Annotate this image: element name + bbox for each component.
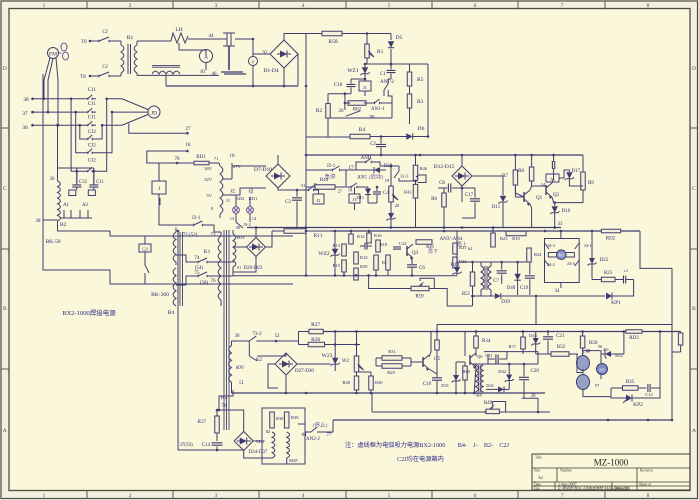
svg-text:B4: B4 bbox=[168, 310, 175, 316]
wire 60V to D20 bbox=[233, 246, 247, 248]
resistor R38 bbox=[270, 412, 275, 428]
wire bridge right to vline bbox=[297, 54, 299, 86]
svg-text:7: 7 bbox=[561, 493, 564, 499]
svg-text:R43: R43 bbox=[404, 190, 412, 195]
svg-text:4: 4 bbox=[302, 493, 305, 499]
phase bus B bbox=[33, 111, 85, 113]
resistor R24 bbox=[527, 248, 532, 262]
svg-text:C19: C19 bbox=[520, 286, 529, 291]
svg-text:R29: R29 bbox=[360, 264, 368, 269]
svg-text:36V: 36V bbox=[204, 166, 213, 171]
svg-text:D6: D6 bbox=[418, 126, 425, 132]
wire bridge left bbox=[253, 53, 270, 55]
wire Q6 collector bbox=[475, 348, 477, 353]
relay J3 box bbox=[349, 194, 360, 203]
svg-text:R60: R60 bbox=[463, 369, 471, 374]
svg-text:Size: Size bbox=[534, 469, 541, 473]
resistor R10 bbox=[506, 231, 526, 236]
svg-text:36: 36 bbox=[22, 125, 28, 131]
wire V top bbox=[252, 39, 254, 57]
svg-text:T6: T6 bbox=[81, 40, 87, 45]
svg-text:Q1: Q1 bbox=[536, 196, 543, 201]
svg-text:C2J: C2J bbox=[142, 247, 149, 252]
svg-text:27: 27 bbox=[186, 127, 192, 132]
motor M2 bbox=[597, 364, 608, 375]
wire D20 right bbox=[266, 231, 273, 247]
left bracket R27 R26 bbox=[298, 332, 300, 345]
wires CJ2 outputs down to B2 block bbox=[76, 171, 78, 183]
CJ2 right riser 2 bbox=[96, 112, 112, 153]
resistor R17 bbox=[374, 255, 379, 270]
second board bus y275 bbox=[233, 275, 457, 277]
svg-text:8: 8 bbox=[647, 3, 650, 9]
svg-text:C20: C20 bbox=[531, 369, 540, 374]
svg-text:18: 18 bbox=[186, 143, 192, 148]
wire KP1 loop bbox=[620, 280, 634, 297]
winding 60V upper bbox=[233, 234, 236, 267]
svg-text:R11: R11 bbox=[314, 233, 323, 239]
zener under W1 bbox=[388, 213, 394, 219]
svg-text:A: A bbox=[3, 428, 7, 434]
svg-text:76: 76 bbox=[222, 404, 228, 409]
resistor R52 bbox=[551, 352, 569, 357]
svg-text:RD1: RD1 bbox=[196, 155, 206, 160]
svg-text:D31: D31 bbox=[441, 383, 449, 388]
svg-text:R29: R29 bbox=[387, 370, 395, 375]
svg-text:51: 51 bbox=[239, 381, 245, 386]
diode DZ4 bbox=[454, 267, 460, 273]
block top rail bbox=[484, 351, 538, 353]
svg-text:C8: C8 bbox=[439, 181, 445, 186]
svg-text:1: 1 bbox=[43, 493, 46, 499]
svg-text:R25: R25 bbox=[604, 271, 613, 276]
thyristor KP2 bbox=[626, 395, 632, 402]
wire ANH row right bbox=[391, 165, 399, 167]
svg-text:27: 27 bbox=[338, 189, 343, 194]
svg-text:Drawn By: Drawn By bbox=[614, 487, 629, 491]
relay J2 box bbox=[313, 194, 324, 204]
svg-text:D1-D4: D1-D4 bbox=[263, 68, 279, 74]
wire D17 join bbox=[569, 184, 583, 186]
resistor R27 bbox=[309, 329, 323, 334]
svg-text:C1: C1 bbox=[380, 72, 386, 77]
svg-text:R46: R46 bbox=[420, 166, 428, 171]
resistor R35 bbox=[623, 386, 639, 391]
contact AN2-2 bbox=[311, 427, 317, 432]
svg-text:Revision: Revision bbox=[640, 469, 653, 473]
main transformer core bbox=[224, 230, 229, 430]
right rail x672 bbox=[671, 268, 673, 420]
wire LH to 44 bbox=[188, 38, 227, 40]
svg-text:LH: LH bbox=[175, 27, 182, 33]
svg-text:R8: R8 bbox=[518, 169, 524, 174]
wires M2 block bbox=[582, 348, 584, 354]
svg-text:DZ4: DZ4 bbox=[450, 263, 460, 268]
resistor R34 bbox=[474, 336, 479, 348]
cap C12 bbox=[648, 384, 650, 392]
wire FM to phase A bbox=[44, 58, 50, 99]
resistor R48 bbox=[354, 376, 359, 390]
contact to J2 bbox=[297, 189, 304, 191]
resistor R13 bbox=[342, 244, 347, 256]
resistor R40 bbox=[369, 376, 374, 390]
block mid rail bbox=[473, 363, 538, 365]
current transformer LH bbox=[171, 33, 188, 43]
svg-text:6: 6 bbox=[474, 3, 477, 9]
svg-text:J4-3: J4-3 bbox=[547, 243, 555, 248]
resistor R26 bbox=[308, 342, 324, 347]
wire bottom left bus bbox=[178, 449, 244, 451]
svg-text:R26: R26 bbox=[311, 337, 320, 343]
cap c1 small bbox=[624, 276, 626, 284]
CJ2 left riser 1 bbox=[80, 125, 84, 139]
resistor R5 bbox=[407, 72, 412, 86]
cap C19 bbox=[525, 276, 535, 278]
gas valve coil upper bbox=[577, 356, 590, 371]
resistor R21 bbox=[453, 243, 458, 254]
svg-text:D11: D11 bbox=[356, 195, 364, 200]
svg-text:W2: W2 bbox=[342, 359, 350, 364]
svg-text:J2-1: J2-1 bbox=[327, 164, 336, 169]
varistor box right bbox=[88, 190, 95, 196]
svg-text:R44: R44 bbox=[320, 178, 329, 183]
cap C4 bbox=[373, 192, 381, 194]
diode D42 bbox=[506, 375, 512, 381]
svg-text:71: 71 bbox=[214, 156, 219, 161]
cap C22 bbox=[393, 247, 401, 249]
svg-text:7: 7 bbox=[561, 3, 564, 9]
resistor R37 bbox=[215, 416, 220, 433]
svg-text:5: 5 bbox=[388, 3, 391, 9]
svg-text:3: 3 bbox=[215, 3, 218, 9]
fuse CF box bbox=[139, 244, 151, 252]
diode D31c bbox=[453, 375, 459, 381]
cap C14 bbox=[212, 443, 223, 445]
fuse RD3 bbox=[626, 330, 642, 334]
svg-text:D41: D41 bbox=[486, 383, 494, 388]
wire 76 line bbox=[232, 272, 234, 276]
relay J box bbox=[152, 181, 166, 194]
wire osc bottom bbox=[372, 411, 550, 413]
svg-text:K1: K1 bbox=[204, 249, 211, 255]
resistor R23 bbox=[491, 233, 496, 247]
svg-text:注：虚线框为电弧吺力电源BX2-1000 B4- J- B: 注：虚线框为电弧吺力电源BX2-1000 B4- J- B2- C2J bbox=[345, 441, 510, 449]
svg-text:56: 56 bbox=[604, 347, 609, 352]
resistor R11 bbox=[284, 229, 306, 234]
resistor R14 bbox=[354, 252, 359, 264]
enclosure box left edge bbox=[43, 74, 293, 284]
svg-text:C11: C11 bbox=[96, 180, 104, 185]
svg-text:73: 73 bbox=[211, 233, 217, 238]
wire down to bus1 bbox=[535, 296, 537, 325]
motor M1 bbox=[557, 250, 567, 260]
svg-text:72 (52): 72 (52) bbox=[183, 233, 198, 238]
svg-text:38: 38 bbox=[23, 97, 29, 103]
wires CJ right sides join JD bbox=[107, 99, 148, 110]
wire mid section bbox=[305, 85, 308, 88]
svg-text:Sheet of: Sheet of bbox=[639, 483, 652, 487]
wire R59 to R51 bbox=[429, 289, 473, 307]
wire bridge top to vbus bbox=[284, 34, 306, 41]
svg-text:BK-300: BK-300 bbox=[151, 292, 169, 298]
svg-text:26: 26 bbox=[339, 109, 345, 114]
cap C21 bbox=[543, 337, 553, 339]
svg-text:18: 18 bbox=[348, 188, 353, 193]
svg-text:KP1: KP1 bbox=[611, 300, 621, 306]
wire sec to node bbox=[219, 390, 233, 410]
svg-text:B1: B1 bbox=[127, 35, 134, 41]
LH pickup coil bbox=[152, 71, 180, 74]
svg-text:CJ1: CJ1 bbox=[88, 87, 96, 93]
svg-text:B4: B4 bbox=[476, 394, 482, 399]
svg-text:31: 31 bbox=[237, 265, 242, 270]
wire AN2-2 bbox=[298, 424, 305, 432]
svg-text:74: 74 bbox=[195, 256, 201, 261]
cap at JA top bbox=[552, 161, 554, 169]
wire B1 sec top bbox=[137, 40, 171, 42]
board bus y227 bbox=[247, 227, 561, 229]
svg-text:M2F: M2F bbox=[289, 458, 298, 463]
svg-text:R1: R1 bbox=[377, 49, 384, 55]
wire taps to bridge bbox=[226, 188, 266, 195]
svg-text:Title: Title bbox=[535, 456, 542, 460]
resistor R9 bbox=[581, 172, 586, 190]
fan blades bbox=[61, 43, 67, 51]
wire mid join bbox=[390, 208, 392, 212]
wire top second board bbox=[457, 261, 530, 263]
svg-text:C32: C32 bbox=[79, 180, 88, 185]
cap C3 bbox=[292, 198, 302, 200]
svg-text:R14: R14 bbox=[360, 255, 368, 260]
svg-text:File: File bbox=[534, 487, 540, 491]
svg-text:C6: C6 bbox=[419, 266, 425, 271]
wire D5 C1 to R5 bbox=[391, 63, 410, 65]
svg-text:14: 14 bbox=[252, 216, 257, 221]
svg-text:R31: R31 bbox=[388, 349, 396, 354]
svg-text:D42: D42 bbox=[498, 369, 506, 374]
field winding M2F bbox=[287, 432, 290, 458]
wire 44 to bridge top area bbox=[235, 38, 253, 40]
svg-text:Q2: Q2 bbox=[553, 193, 560, 198]
wires D27 block bbox=[285, 375, 287, 393]
wire R61 bbox=[680, 332, 682, 334]
svg-text:CJ: CJ bbox=[102, 65, 107, 70]
wire B1 sec bottom bbox=[165, 75, 167, 86]
svg-text:C: C bbox=[3, 186, 7, 192]
wire CF branch bbox=[144, 236, 146, 244]
cap C7 bbox=[497, 271, 507, 273]
control transformer winding bbox=[220, 166, 223, 214]
svg-text:D: D bbox=[3, 66, 7, 72]
svg-text:1: 1 bbox=[43, 3, 46, 9]
right rail x428 bbox=[427, 64, 429, 137]
diode D43 bbox=[533, 338, 539, 344]
left tall rail bbox=[177, 231, 179, 450]
cap C10 bbox=[432, 378, 442, 380]
svg-text:C14: C14 bbox=[202, 443, 211, 448]
cap C17 bbox=[470, 199, 480, 201]
resistor R60c bbox=[463, 366, 468, 380]
wire D39 to KP1 bbox=[501, 295, 605, 297]
diode D38 bbox=[374, 167, 380, 173]
svg-text:B: B bbox=[692, 306, 696, 312]
svg-text:A: A bbox=[692, 428, 696, 434]
spark gap electrode bbox=[223, 33, 235, 46]
cap C6 bbox=[407, 265, 417, 267]
diode D40 bbox=[514, 274, 520, 280]
diode D41 bbox=[498, 386, 504, 392]
svg-text:R37: R37 bbox=[198, 420, 207, 425]
wire node to D34 bbox=[219, 410, 244, 432]
svg-text:5V: 5V bbox=[207, 193, 213, 198]
svg-text:J4-4: J4-4 bbox=[567, 261, 575, 266]
svg-text:70: 70 bbox=[175, 157, 181, 162]
svg-text:R38: R38 bbox=[276, 416, 284, 421]
svg-text:46: 46 bbox=[212, 72, 218, 77]
resistor R7 bbox=[513, 170, 518, 185]
svg-text:D17: D17 bbox=[572, 169, 581, 174]
wire Q1 emitter bbox=[530, 204, 532, 228]
svg-text:6: 6 bbox=[474, 493, 477, 499]
diode D5 bbox=[390, 34, 392, 41]
resistor R51 bbox=[470, 272, 475, 286]
resistor R71 bbox=[521, 337, 526, 349]
pot W1 bbox=[389, 186, 394, 202]
wire Q2 collector bbox=[552, 172, 554, 183]
bus2 y331 bbox=[323, 331, 626, 333]
field winding M1F bbox=[272, 432, 275, 458]
svg-text:KD2: KD2 bbox=[236, 196, 245, 201]
svg-text:73-2: 73-2 bbox=[252, 332, 262, 337]
winding 60V lower bbox=[229, 346, 232, 383]
svg-text:WZ1: WZ1 bbox=[347, 68, 359, 74]
svg-text:R34: R34 bbox=[482, 339, 491, 344]
motor M1 brush boxes bbox=[548, 253, 557, 258]
wire Q1 collector bbox=[530, 186, 532, 190]
svg-text:RD2: RD2 bbox=[606, 237, 616, 242]
svg-text:4: 4 bbox=[302, 3, 305, 9]
wire J3-1 right bbox=[210, 225, 221, 232]
svg-text:CJ: CJ bbox=[102, 30, 107, 35]
wire G5 collector bbox=[429, 332, 431, 358]
svg-text:CJ2: CJ2 bbox=[88, 158, 96, 164]
svg-text:A2: A2 bbox=[82, 203, 89, 208]
resistor R17b bbox=[386, 255, 391, 270]
main transformer primary bbox=[218, 236, 221, 300]
wire G5 emitter bbox=[429, 369, 437, 374]
A1 A2 arrester contacts bbox=[63, 210, 65, 218]
wire FM to phase B bbox=[48, 59, 53, 113]
switch below CF bbox=[144, 262, 146, 265]
resistor R33 bbox=[435, 340, 440, 350]
transformer B2 winding bbox=[58, 181, 61, 221]
svg-text:D25: D25 bbox=[600, 258, 609, 263]
svg-text:BX2-1000焊接电源: BX2-1000焊接电源 bbox=[62, 308, 116, 317]
svg-text:19: 19 bbox=[385, 178, 390, 183]
transformer B3 bbox=[481, 266, 484, 290]
zener D11 right bbox=[500, 196, 506, 202]
svg-text:60V: 60V bbox=[237, 236, 246, 241]
svg-text:58: 58 bbox=[586, 349, 590, 354]
left zone ticks bbox=[1, 127, 9, 129]
wire bridge12 top bbox=[461, 155, 463, 166]
svg-text:33: 33 bbox=[558, 222, 564, 227]
phase bus A bbox=[33, 98, 85, 100]
top wires of C32 C11 bbox=[58, 167, 94, 169]
resistor R58 bbox=[322, 31, 342, 36]
wire D27 out right bbox=[297, 363, 331, 365]
resistor R3 bbox=[407, 94, 412, 108]
svg-text:R71: R71 bbox=[508, 344, 516, 349]
svg-text:RD3: RD3 bbox=[629, 336, 639, 341]
svg-text:R48: R48 bbox=[342, 380, 350, 385]
transformer B1 primary bbox=[118, 40, 121, 42]
svg-text:R6: R6 bbox=[431, 197, 437, 202]
bottom bus of HF section bbox=[166, 85, 298, 87]
svg-text:FM: FM bbox=[49, 52, 57, 58]
wires second board bbox=[334, 270, 336, 275]
svg-text:M2: M2 bbox=[599, 368, 605, 373]
svg-text:A1: A1 bbox=[63, 203, 70, 208]
svg-text:再下: 再下 bbox=[428, 249, 438, 255]
svg-text:30: 30 bbox=[236, 225, 241, 230]
bus y393 bbox=[232, 392, 546, 394]
wire AN1 right down bbox=[388, 90, 392, 118]
svg-text:J1: J1 bbox=[363, 85, 367, 90]
resistor R12 bbox=[349, 234, 354, 244]
bridge D27-D30 bbox=[275, 353, 297, 375]
transformer B4 winding lower bbox=[173, 268, 176, 306]
transformer B4 winding upper bbox=[173, 232, 176, 262]
resistor R43 bbox=[413, 184, 418, 198]
top zone ticks bbox=[86, 1, 88, 9]
R59 wiper loop bbox=[420, 278, 434, 288]
svg-text:D7-D10: D7-D10 bbox=[254, 167, 272, 173]
svg-text:56: 56 bbox=[598, 344, 603, 349]
resistor R22 bbox=[453, 257, 458, 268]
transistor Q1 bbox=[523, 192, 525, 202]
bottom rail y137 bbox=[306, 136, 350, 138]
pot R49 bbox=[486, 409, 499, 414]
svg-text:81: 81 bbox=[201, 70, 207, 75]
wire Q2 base bbox=[532, 185, 546, 187]
resistor R2 bbox=[326, 104, 331, 118]
svg-text:R10: R10 bbox=[512, 236, 520, 241]
svg-text:38: 38 bbox=[36, 219, 42, 224]
svg-text:11: 11 bbox=[226, 198, 230, 203]
svg-text:J3-2: J3-2 bbox=[243, 222, 251, 227]
svg-text:绿: 绿 bbox=[248, 188, 253, 195]
cap C11b bbox=[496, 355, 498, 364]
transformer B1 core bbox=[128, 44, 131, 74]
svg-text:R4: R4 bbox=[359, 127, 366, 133]
board bus y155 bbox=[306, 154, 583, 156]
svg-text:T8: T8 bbox=[80, 75, 86, 80]
wire Q6 emitter bbox=[474, 367, 476, 393]
svg-text:8: 8 bbox=[647, 493, 650, 499]
svg-text:J: J bbox=[158, 187, 160, 192]
svg-text:D5: D5 bbox=[396, 35, 403, 41]
resistor R4 bbox=[350, 134, 370, 139]
wire V bottom bbox=[252, 66, 254, 87]
svg-text:3: 3 bbox=[215, 493, 218, 499]
svg-text:(启动): (启动) bbox=[369, 173, 384, 181]
thyristor KP1 bbox=[606, 293, 612, 300]
wire J top bbox=[158, 163, 160, 181]
svg-text:36: 36 bbox=[50, 177, 56, 182]
svg-text:B2: B2 bbox=[60, 222, 67, 228]
wire B2 bottom to bus bbox=[58, 231, 294, 236]
